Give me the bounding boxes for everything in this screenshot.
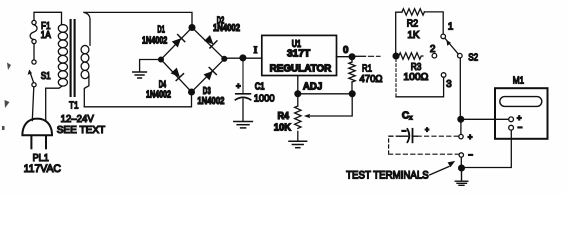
wire U1 output xyxy=(337,56,353,58)
wire top rail left (fuse to transformer primary) xyxy=(34,12,62,24)
svg-text:10K: 10K xyxy=(274,122,292,133)
wire junction up to R2 row xyxy=(396,12,402,53)
wire U1 ADJ pin xyxy=(297,76,299,94)
ground (test terminal) xyxy=(455,171,468,186)
edge artifacts xyxy=(2,63,11,131)
svg-text:R4: R4 xyxy=(278,111,290,122)
node bridge bottom xyxy=(189,89,195,95)
svg-text:−: − xyxy=(402,127,407,136)
fuse F1 xyxy=(30,20,37,43)
node meter junction xyxy=(458,116,464,122)
svg-text:T1: T1 xyxy=(69,101,79,112)
node R2/R3 junction xyxy=(393,53,399,59)
wire fuse to S1 xyxy=(33,44,35,60)
wire S2 pivot down to meter junction xyxy=(459,58,461,119)
capacitor C1 xyxy=(235,94,250,121)
wire dashes left + down + bottom to minus terminal xyxy=(389,135,400,137)
wire R4 wiper link xyxy=(308,96,353,116)
node bridge left xyxy=(159,57,164,62)
diode D4 xyxy=(171,68,184,81)
wire secondary bottom to bridge xyxy=(84,94,191,107)
wire junction down to test terminal plus xyxy=(460,119,462,134)
svg-text:1N4002: 1N4002 xyxy=(213,23,240,34)
svg-text:12–24V: 12–24V xyxy=(61,113,94,125)
svg-text:ADJ: ADJ xyxy=(303,82,322,93)
transformer T1 core xyxy=(71,20,75,96)
svg-text:2: 2 xyxy=(430,44,436,55)
meter M1 box xyxy=(495,88,548,139)
svg-text:+: + xyxy=(468,133,473,142)
wire junction to M1 plus xyxy=(461,118,509,120)
bridge arm bottom-left xyxy=(161,60,192,93)
svg-text:R1: R1 xyxy=(362,63,372,74)
svg-text:S2: S2 xyxy=(468,52,478,63)
resistor R3 xyxy=(399,53,423,59)
bridge arm bottom-right xyxy=(192,59,225,92)
meter M1 plus terminal xyxy=(509,117,514,122)
node bridge right xyxy=(222,56,227,61)
switch S2 pivot and arm xyxy=(458,53,463,58)
wire transformer primary bottom to plug xyxy=(46,87,62,121)
svg-text:3: 3 xyxy=(446,79,452,90)
switch S2 contact 1 xyxy=(441,34,446,39)
svg-text:I: I xyxy=(254,46,258,56)
svg-text:SEE TEXT: SEE TEXT xyxy=(57,124,106,136)
svg-text:REGULATOR: REGULATOR xyxy=(270,63,332,74)
node ground junction xyxy=(459,165,465,171)
wire bridge right to U1 input xyxy=(227,57,262,59)
svg-text:M1: M1 xyxy=(513,75,525,86)
svg-text:+: + xyxy=(236,82,241,91)
capacitor Cx symbol xyxy=(400,129,417,143)
node bridge top xyxy=(189,25,195,31)
svg-text:0: 0 xyxy=(343,45,349,56)
svg-text:1: 1 xyxy=(448,22,454,33)
node R1 bottom junction xyxy=(349,91,355,97)
terminal plus xyxy=(459,134,463,138)
svg-text:1N4002: 1N4002 xyxy=(146,90,171,101)
diode D1 xyxy=(172,35,185,48)
switch S2 contact 2 xyxy=(432,53,437,58)
svg-text:317T: 317T xyxy=(287,49,310,60)
diode D2 xyxy=(204,35,217,48)
plug PL1 xyxy=(22,119,52,149)
wire dashes cap to plus terminal xyxy=(417,135,458,137)
resistor R2 xyxy=(402,9,424,15)
wire ADJ rail xyxy=(298,93,352,95)
svg-text:−: − xyxy=(518,123,523,132)
svg-text:100Ω: 100Ω xyxy=(403,72,429,83)
ground (C1) xyxy=(234,122,253,128)
diode D3 xyxy=(204,68,217,81)
ground (bridge left) xyxy=(133,72,147,78)
svg-text:S1: S1 xyxy=(41,71,51,82)
wire S1 to plug xyxy=(32,87,34,121)
svg-text:−: − xyxy=(468,151,473,160)
svg-text:1N4002: 1N4002 xyxy=(142,35,168,46)
svg-text:TEST TERMINALS: TEST TERMINALS xyxy=(346,169,429,181)
wire R2 to contact 1 xyxy=(424,12,443,34)
op-amp U1 regulator box xyxy=(262,35,337,75)
svg-text:D1: D1 xyxy=(157,24,165,35)
svg-text:C1: C1 xyxy=(255,82,265,93)
potentiometer R4 xyxy=(295,96,301,140)
transformer T1 primary winding xyxy=(58,25,67,87)
node C1 junction xyxy=(240,55,246,61)
wire junction down + link to contact 3 (faded) xyxy=(395,59,397,97)
node ADJ junction xyxy=(295,91,301,97)
meter M1 minus terminal xyxy=(509,125,514,130)
bridge arm top-right xyxy=(192,28,224,60)
svg-text:+: + xyxy=(425,127,429,134)
bridge arm top-left xyxy=(161,28,192,60)
switch S1 xyxy=(28,60,36,87)
svg-text:1K: 1K xyxy=(407,30,419,41)
svg-text:117VAC: 117VAC xyxy=(24,163,61,175)
switch S2 contact 3 xyxy=(441,73,446,78)
ground (R4) xyxy=(289,141,307,147)
svg-text:R2: R2 xyxy=(407,19,419,30)
svg-text:+: + xyxy=(517,114,522,123)
svg-text:1N4002: 1N4002 xyxy=(197,96,224,107)
meter M1 scale lozenge xyxy=(500,97,542,107)
wire output to R2/R3 junction (faded dashes) xyxy=(355,55,366,57)
svg-text:470Ω: 470Ω xyxy=(360,74,383,85)
wire M1 minus drop xyxy=(463,130,511,167)
wire junction down to C1 xyxy=(242,61,244,94)
wire bridge left to ground xyxy=(140,60,159,72)
terminal minus xyxy=(459,153,463,157)
svg-text:1A: 1A xyxy=(41,30,52,41)
svg-text:1000: 1000 xyxy=(254,94,275,105)
node output junction xyxy=(349,54,355,60)
transformer T1 secondary winding xyxy=(81,12,90,106)
resistor R1 xyxy=(349,59,355,91)
wire secondary top to bridge xyxy=(84,12,192,25)
wire terminal minus to ground junction xyxy=(460,157,462,168)
